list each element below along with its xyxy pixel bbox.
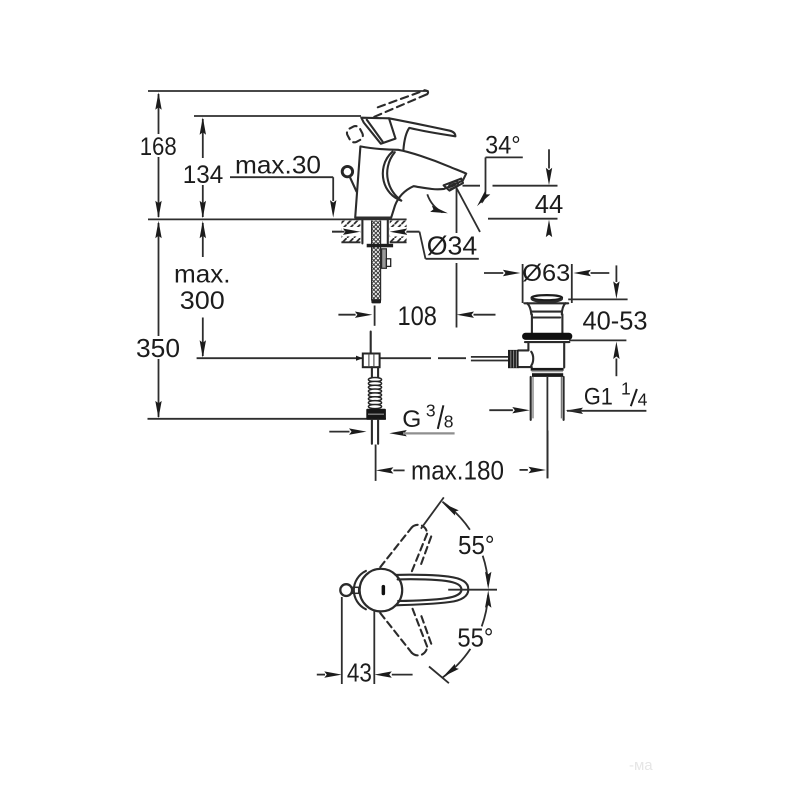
drain lower ring [531,368,564,371]
wire water stream 34 degree line [457,189,480,232]
top view: lever blade outer [395,575,468,606]
dimension max.30 leader [230,152,336,218]
pop-up knob [342,166,352,176]
drain rubber washer [522,333,572,340]
svg-text:G: G [402,406,421,433]
mounting washer under deck [367,244,393,248]
wire 55 axis line upper [421,497,444,528]
svg-text:Ø34: Ø34 [427,231,478,261]
drain center axis [546,377,548,478]
dimension 350 [136,221,180,419]
dashed lever raised position [345,90,428,144]
lever handle [389,118,455,150]
dimension 43 [317,597,413,688]
aerator [444,179,463,191]
svg-text:Ø63: Ø63 [522,260,570,287]
drain flange top [524,302,568,304]
wire 55 axis line lower [429,667,449,684]
deck hatched slab right block [390,221,407,243]
top view: dashed lever up 55 [380,525,431,573]
top view: knob connector [352,587,358,593]
drain body lower [527,342,529,350]
wire bottom reference line 350 [148,418,387,420]
wire reference line 134 [194,115,361,117]
dimension 168 [140,92,177,218]
top view: handle body circle [360,569,403,612]
drain side outlet [518,349,528,351]
braided supply hose [372,221,381,301]
dimension Ø63 [484,260,609,303]
drain body upper [531,314,533,333]
dimension 34 degrees leader [474,131,522,208]
svg-text:max.: max. [174,261,231,289]
wire 55 arc segments [442,502,470,530]
wire top reference line 168 [148,90,429,92]
svg-text:134: 134 [183,161,224,189]
svg-text:-ма: -ма [629,757,653,774]
wire aerator vertical reference [456,187,458,233]
svg-text:3: 3 [426,400,436,420]
svg-text:8: 8 [444,412,454,432]
white bands behind diameter arrows [342,227,361,236]
diameter 34 arrows redrawn [332,231,345,233]
dimension G 3/8 [329,400,454,436]
faucet base bottom [355,217,391,219]
deck hatched slab left block [341,221,360,243]
top view: pop-up knob [340,584,352,596]
svg-text:44: 44 [535,189,564,219]
faucet inner crescent [383,152,401,201]
drain tailpipe G1 1/4 [530,377,532,420]
svg-text:G1: G1 [584,384,613,411]
svg-text:43: 43 [347,658,372,688]
svg-text:55°: 55° [458,530,495,560]
dimension max.180 [376,431,548,486]
wire centerline [448,589,497,591]
dimension 108 [338,301,495,331]
dimension max.300 [174,221,231,358]
dimension 44 [463,149,564,237]
G3/8 stub [371,420,373,444]
dimension G 1 1/4 [489,378,647,414]
hose continues [370,332,372,353]
dimension 40-53 [568,265,647,376]
pop-up rod bracket [382,249,387,268]
wire pop-up rod horizontal / max300 reference [197,357,363,359]
svg-text:55°: 55° [457,622,493,652]
pop-up rod [350,177,357,192]
knurled rod nut [508,350,519,368]
svg-text:300: 300 [180,287,225,315]
rod coupler [363,354,380,368]
top view: key tick [382,585,386,595]
svg-text:108: 108 [397,301,437,331]
svg-text:4: 4 [638,389,648,409]
hose stub below coupler [371,367,373,377]
wire deck slab top edge [341,218,407,220]
svg-text:max.30: max.30 [235,152,321,180]
top view: body rear arc [354,571,366,609]
top view: lever blade inner [398,579,462,601]
hose tip [371,299,381,303]
G3/8 threaded coil [368,378,381,409]
svg-text:168: 168 [140,133,177,161]
top view: dashed lever down 55 [380,608,431,655]
svg-text:34°: 34° [485,131,521,159]
svg-text:1: 1 [621,378,631,398]
svg-text:max.180: max.180 [411,455,504,485]
faucet shank through deck [361,221,363,244]
wire stream sweep arc [427,194,442,212]
dimension 134 [183,117,224,218]
svg-text:40-53: 40-53 [583,306,648,336]
hex nut [366,409,386,420]
drain pop-up cap [532,295,562,300]
dimension Ø34 [332,229,479,261]
faucet body [355,146,466,217]
svg-text:350: 350 [136,335,180,363]
cartridge cap [361,118,395,144]
wire deck slab bottom edges [341,241,360,243]
wire deck surface line [148,218,341,220]
